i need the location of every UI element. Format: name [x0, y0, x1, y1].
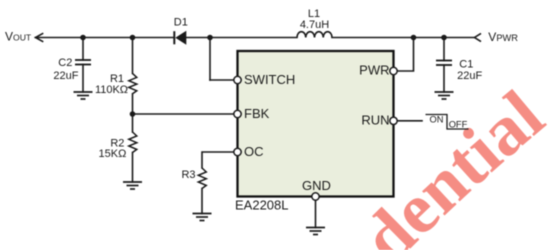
svg-text:FBK: FBK — [244, 106, 270, 121]
svg-text:ON: ON — [430, 114, 444, 124]
junction node FBK divider — [130, 111, 136, 117]
pin OC circle — [234, 148, 241, 155]
wire inductor right to VPWR arrow — [332, 37, 475, 39]
junction node C2/rail — [80, 35, 86, 41]
junction node C1/rail — [441, 35, 447, 41]
resistor R2 zigzag — [129, 132, 137, 153]
diode D1 triangle — [175, 31, 186, 45]
ground below C1 — [435, 92, 454, 99]
wire diode anode to inductor left — [186, 37, 297, 39]
wire OC pin to R3 — [202, 152, 234, 168]
capacitor C1 plates — [436, 61, 452, 66]
wire switch branch vertical — [209, 38, 211, 81]
wire C1 branch vertical — [443, 38, 445, 61]
pin SWITCH circle — [234, 76, 241, 83]
svg-text:4.7uH: 4.7uH — [300, 19, 329, 31]
svg-text:R3: R3 — [181, 169, 195, 181]
junction node switch branch/rail — [207, 35, 213, 41]
wire R3 bottom to ground — [201, 189, 203, 214]
svg-text:EA2208L: EA2208L — [235, 197, 289, 212]
svg-text:VPWR: VPWR — [488, 30, 518, 44]
ground below R2 — [123, 182, 142, 189]
svg-text:GND: GND — [302, 178, 331, 193]
ON/OFF level symbol — [426, 115, 469, 130]
svg-text:110KΩ: 110KΩ — [95, 84, 128, 96]
inductor L1 coil — [297, 32, 332, 38]
VPWR open arrowhead — [475, 33, 482, 41]
wire C1 bottom to ground — [443, 65, 445, 92]
capacitor C2 plates — [75, 60, 91, 65]
wire GND pin to ground — [315, 200, 317, 227]
wire PWR pin up to rail — [397, 38, 413, 72]
VOUT arrowhead — [36, 33, 44, 42]
pin GND circle — [312, 193, 319, 200]
ground below GND pin — [306, 228, 325, 235]
svg-text:RUN: RUN — [361, 112, 389, 127]
ground below C2 — [74, 92, 93, 99]
IC U1 EA2208L body — [238, 51, 394, 197]
svg-text:VOUT: VOUT — [5, 30, 32, 44]
svg-text:C1: C1 — [459, 59, 473, 71]
svg-text:22uF: 22uF — [53, 70, 78, 82]
diode D1 cathode bar — [173, 31, 175, 44]
svg-text:SWITCH: SWITCH — [244, 72, 295, 87]
svg-text:PWR: PWR — [359, 63, 389, 78]
svg-text:C2: C2 — [58, 57, 72, 69]
pin RUN circle — [390, 117, 397, 124]
junction node PWR branch/rail — [411, 35, 417, 41]
ground below R3 — [193, 214, 212, 221]
svg-text:22uF: 22uF — [457, 70, 482, 82]
svg-text:15KΩ: 15KΩ — [99, 148, 127, 160]
pin FBK circle — [234, 110, 241, 117]
wire R1 bottom to FBK node — [132, 94, 134, 132]
wire FBK node to FBK pin — [133, 113, 234, 115]
svg-text:D1: D1 — [174, 17, 188, 29]
junction node R1/rail — [130, 35, 136, 41]
resistor R1 zigzag — [129, 73, 137, 93]
wire R2 bottom to ground — [132, 153, 134, 183]
svg-text:OFF: OFF — [449, 120, 468, 130]
wire C2 branch vertical — [82, 38, 84, 61]
wire switch branch horizontal to SWITCH pin — [210, 79, 234, 81]
wire R1 branch top — [132, 38, 134, 74]
wire VOUT rail (arrow tip to diode cathode) — [36, 37, 174, 39]
wire RUN pin stub — [397, 120, 422, 122]
pin PWR circle — [390, 67, 397, 74]
resistor R3 zigzag — [198, 168, 206, 189]
wire C2 bottom to ground — [82, 65, 84, 93]
svg-text:OC: OC — [244, 144, 264, 159]
svg-text:R1: R1 — [110, 73, 124, 85]
